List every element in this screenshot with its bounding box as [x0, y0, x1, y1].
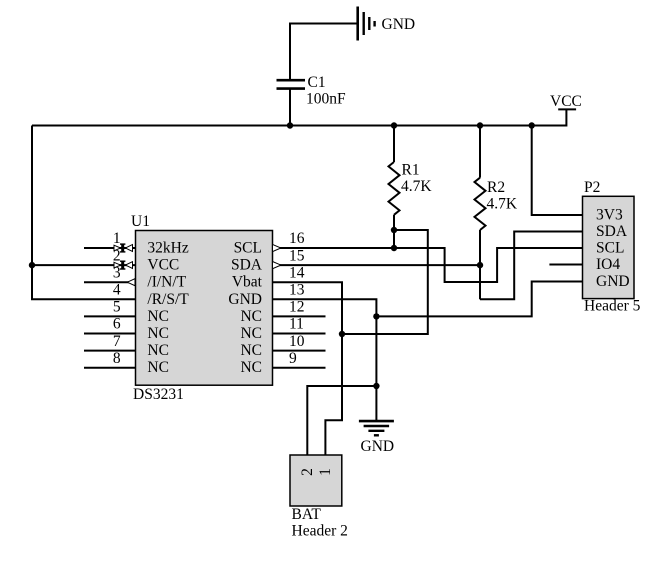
svg-text:U1: U1: [131, 213, 150, 230]
wire: C1 top plate up and right to top ground: [290, 24, 358, 81]
svg-text:1: 1: [317, 468, 334, 476]
capacitor C1: [277, 80, 306, 88]
wire: GND branch to BAT pin 2: [307, 386, 376, 455]
svg-text:13: 13: [289, 282, 305, 299]
svg-text:VCC: VCC: [550, 93, 582, 110]
svg-text:8: 8: [113, 350, 121, 367]
resistor R1: [389, 162, 400, 215]
svg-text:R1: R1: [402, 162, 420, 179]
svg-text:5: 5: [113, 299, 121, 316]
svg-text:GND: GND: [382, 16, 416, 33]
svg-text:2: 2: [299, 468, 316, 476]
ground symbol (top, rotated 90deg): [358, 7, 375, 41]
wire: GND branch to P2 GND: [376, 282, 582, 317]
svg-text:NC: NC: [147, 325, 169, 342]
svg-text:4.7K: 4.7K: [487, 196, 518, 213]
svg-text:BAT: BAT: [292, 506, 322, 523]
svg-text:14: 14: [289, 264, 305, 281]
svg-text:NC: NC: [147, 359, 169, 376]
svg-text:16: 16: [289, 230, 305, 247]
pin marker U1 pin 16 (output): [273, 244, 281, 251]
svg-text:2: 2: [113, 247, 121, 264]
wire: U1 pin 5 stub: [84, 315, 136, 317]
junction node: R1 / jog wire: [391, 227, 397, 233]
svg-text:IO4: IO4: [596, 256, 620, 273]
power VCC symbol: [558, 108, 576, 110]
junction node: bus / R2: [477, 122, 483, 128]
svg-text:GND: GND: [228, 291, 262, 308]
wire: P2 IO4 stub: [549, 264, 582, 266]
IC U1 box: [136, 231, 273, 386]
svg-text:NC: NC: [240, 325, 262, 342]
wire: U1 pin 2 VCC: [32, 264, 136, 266]
wire: U1 pin 8 stub: [84, 367, 136, 369]
svg-text:NC: NC: [240, 308, 262, 325]
ground symbol (bottom): [359, 421, 394, 435]
svg-text:SDA: SDA: [596, 223, 628, 240]
svg-text:15: 15: [289, 247, 305, 264]
wire: U1 pin 7 stub: [84, 350, 136, 352]
wire: U1 pin 11 stub: [273, 333, 326, 335]
svg-text:4.7K: 4.7K: [401, 178, 432, 195]
svg-text:NC: NC: [147, 342, 169, 359]
wire: SCL net U1 pin16 to P2 SCL: [273, 248, 583, 282]
junction node: bus / 3V3 riser: [529, 122, 535, 128]
svg-text:6: 6: [113, 316, 121, 333]
junction node: R1 / SCL: [391, 245, 397, 251]
svg-text:Header 2: Header 2: [292, 523, 348, 540]
svg-text:GND: GND: [596, 273, 630, 290]
wire: U1 pin 12 stub: [273, 315, 326, 317]
wire: U1 pin 3 stub: [84, 281, 136, 283]
wire: U1 pin 9 stub: [273, 367, 326, 369]
svg-text:P2: P2: [584, 179, 600, 196]
wire: GND net U1 pin13 down to bottom ground: [273, 299, 377, 421]
svg-text:11: 11: [289, 316, 304, 333]
svg-text:Vbat: Vbat: [232, 274, 263, 291]
wire: SDA net U1 pin15 to R2: [273, 264, 481, 266]
wire: R1 node jog to Vbat vertical: [342, 230, 428, 334]
wire: R1 top from bus: [393, 126, 395, 163]
svg-text:10: 10: [289, 333, 305, 350]
wire: U1 pin 10 stub: [273, 350, 326, 352]
junction node: Vbat vertical / jog wire: [339, 331, 345, 337]
svg-text:/R/S/T: /R/S/T: [147, 291, 189, 308]
connector BAT box: [290, 455, 342, 506]
svg-text:12: 12: [289, 299, 305, 316]
svg-text:1: 1: [113, 230, 121, 247]
wire: C1 bottom plate to VCC bus: [289, 89, 291, 126]
resistor R2: [475, 178, 486, 230]
svg-text:DS3231: DS3231: [133, 386, 184, 403]
svg-text:7: 7: [113, 333, 121, 350]
svg-text:100nF: 100nF: [306, 91, 346, 108]
wire: VCC bus: [32, 109, 566, 125]
svg-text:9: 9: [289, 350, 297, 367]
pin marker U1 pin 2 (bidirectional): [114, 261, 133, 270]
wire: Vbat net U1 pin14 down to BAT pin 1: [273, 282, 343, 455]
wire: 3V3 riser bus to P2 3V3: [532, 126, 583, 216]
svg-text:C1: C1: [308, 74, 326, 91]
connector P2 box: [583, 196, 635, 298]
junction node: bus / R1: [391, 122, 397, 128]
wire: R2 top from bus: [479, 126, 481, 178]
junction node: GND vertical / BAT branch: [373, 383, 379, 389]
svg-text:NC: NC: [240, 359, 262, 376]
junction node: left VCC branch / pin 2: [29, 262, 35, 268]
svg-text:NC: NC: [147, 308, 169, 325]
pin marker U1 pin 15 (output): [273, 262, 281, 269]
wire: U1 pin 6 stub: [84, 333, 136, 335]
svg-text:SDA: SDA: [231, 257, 263, 274]
svg-text:SCL: SCL: [234, 240, 262, 257]
svg-text:/I/N/T: /I/N/T: [147, 274, 186, 291]
svg-text:32kHz: 32kHz: [147, 240, 188, 257]
wire: R1 bottom to SCL line: [393, 215, 395, 248]
junction node: GND vertical / P2 GND branch: [373, 313, 379, 319]
svg-text:Header 5: Header 5: [584, 298, 641, 315]
wire: U1 pin 1 stub: [84, 247, 136, 249]
wire: R2 bottom down to SDA jog: [479, 230, 481, 299]
wire: bus down left side to U1 pin 4: [32, 126, 136, 300]
svg-text:4: 4: [113, 282, 121, 299]
junction node: R2 / SDA: [477, 262, 483, 268]
pin marker U1 pin 3 (input): [127, 279, 135, 286]
junction node: bus / C1: [287, 122, 293, 128]
svg-text:3V3: 3V3: [596, 207, 623, 224]
wire: SDA jog R2 bottom to P2 SDA: [480, 232, 583, 300]
svg-text:SCL: SCL: [596, 240, 624, 257]
svg-text:VCC: VCC: [147, 257, 179, 274]
svg-text:NC: NC: [240, 342, 262, 359]
svg-text:GND: GND: [361, 438, 395, 455]
pin marker U1 pin 1 (bidirectional): [114, 243, 133, 252]
svg-text:3: 3: [113, 264, 121, 281]
svg-text:R2: R2: [487, 179, 505, 196]
